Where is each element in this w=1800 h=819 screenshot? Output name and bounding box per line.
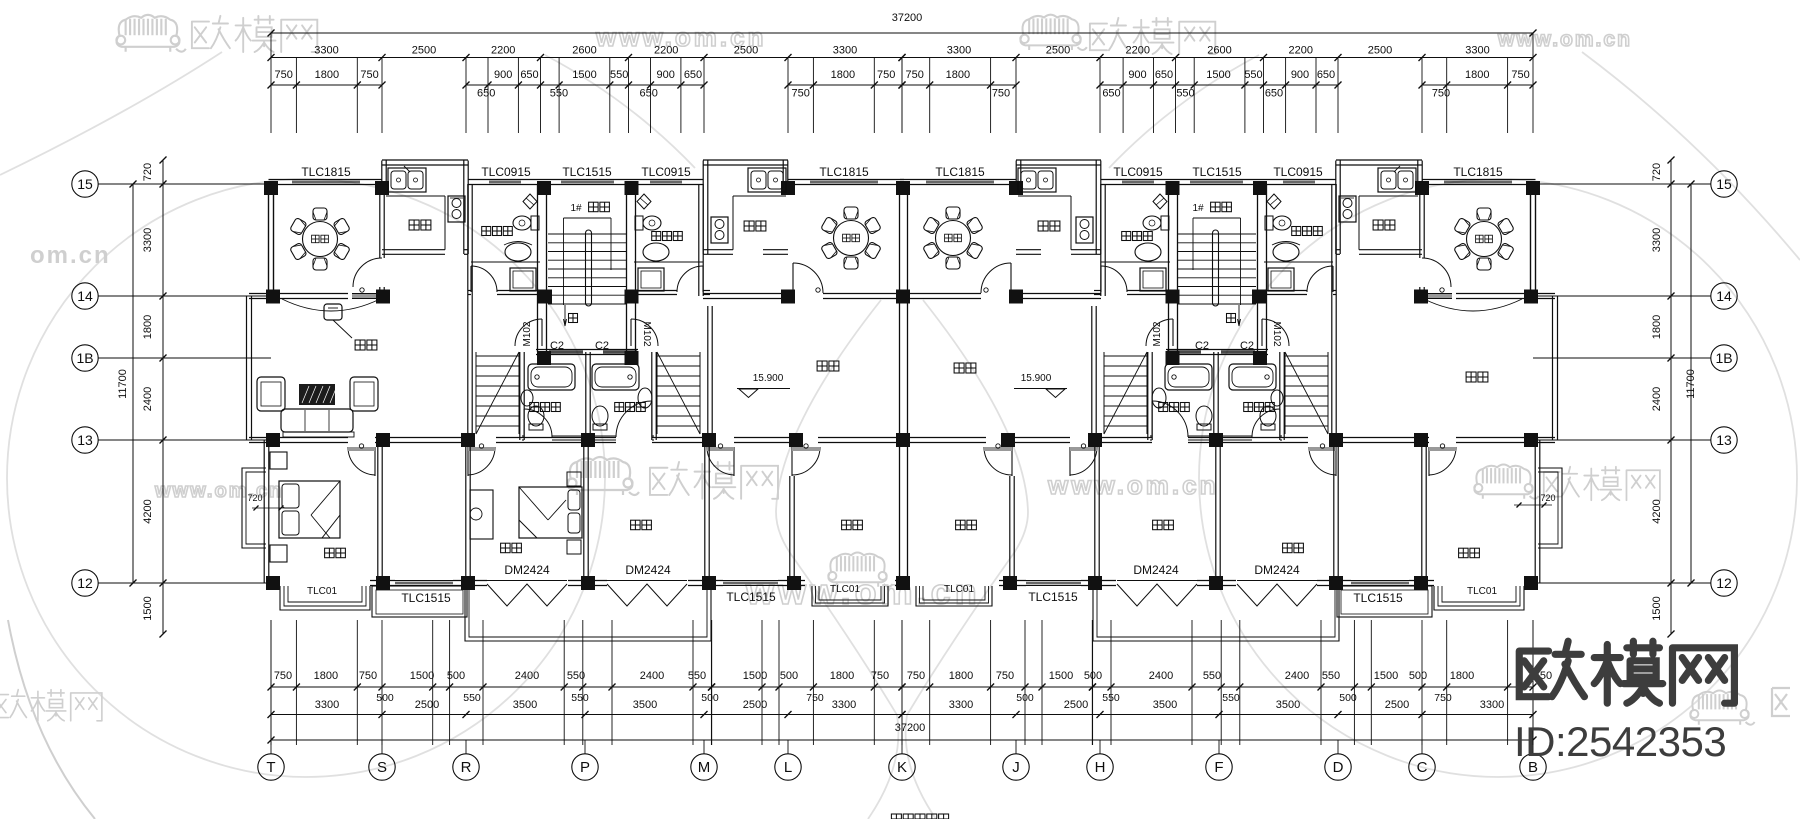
svg-text:650: 650 <box>1265 88 1283 100</box>
svg-text:550: 550 <box>1203 670 1221 682</box>
svg-text:650: 650 <box>1317 69 1335 81</box>
svg-text:2600: 2600 <box>1207 45 1231 57</box>
svg-text:720: 720 <box>247 493 262 503</box>
svg-text:TLC0915: TLC0915 <box>481 165 531 179</box>
svg-text:TLC1815: TLC1815 <box>935 165 985 179</box>
svg-text:14: 14 <box>77 288 93 304</box>
svg-text:11700: 11700 <box>1685 369 1697 399</box>
svg-text:1#: 1# <box>570 203 582 214</box>
svg-text:3500: 3500 <box>1276 699 1300 711</box>
svg-text:37200: 37200 <box>895 722 926 734</box>
svg-text:550: 550 <box>1244 69 1262 81</box>
svg-text:TLC01: TLC01 <box>1467 586 1497 597</box>
svg-text:TLC1515: TLC1515 <box>1028 590 1078 604</box>
svg-text:TLC1515: TLC1515 <box>1353 591 1403 605</box>
svg-text:1500: 1500 <box>142 596 154 620</box>
svg-text:750: 750 <box>877 69 895 81</box>
svg-text:4200: 4200 <box>1651 499 1663 523</box>
svg-text:C2: C2 <box>550 340 564 352</box>
svg-text:TLC1515: TLC1515 <box>1192 165 1242 179</box>
svg-text:500: 500 <box>780 670 798 682</box>
svg-text:3500: 3500 <box>633 699 657 711</box>
svg-text:15.900: 15.900 <box>1021 373 1052 384</box>
svg-text:3300: 3300 <box>949 699 973 711</box>
svg-text:TLC1815: TLC1815 <box>819 165 869 179</box>
svg-text:F: F <box>1214 759 1223 776</box>
svg-text:2400: 2400 <box>142 387 154 411</box>
svg-text:750: 750 <box>907 670 925 682</box>
svg-text:TLC01: TLC01 <box>307 586 337 597</box>
svg-text:3300: 3300 <box>315 699 339 711</box>
svg-text:ID:2542353: ID:2542353 <box>1514 718 1726 765</box>
svg-text:900: 900 <box>1291 69 1309 81</box>
svg-text:1800: 1800 <box>314 670 338 682</box>
svg-text:500: 500 <box>376 692 394 704</box>
svg-text:900: 900 <box>1128 69 1146 81</box>
svg-text:37200: 37200 <box>892 12 923 24</box>
svg-text:750: 750 <box>359 670 377 682</box>
svg-text:750: 750 <box>1432 88 1450 100</box>
svg-text:1800: 1800 <box>949 670 973 682</box>
svg-text:1800: 1800 <box>1465 69 1489 81</box>
svg-text:om.cn: om.cn <box>30 242 111 269</box>
svg-text:TLC1515: TLC1515 <box>726 590 776 604</box>
svg-text:750: 750 <box>871 670 889 682</box>
svg-text:1500: 1500 <box>1651 596 1663 620</box>
svg-text:14: 14 <box>1716 288 1732 304</box>
svg-text:3300: 3300 <box>947 45 971 57</box>
svg-text:2600: 2600 <box>572 45 596 57</box>
svg-text:www.om.cn: www.om.cn <box>1497 28 1632 51</box>
svg-text:1800: 1800 <box>315 69 339 81</box>
svg-text:H: H <box>1095 759 1106 776</box>
svg-text:500: 500 <box>701 692 719 704</box>
svg-text:TLC0915: TLC0915 <box>641 165 691 179</box>
svg-text:DM2424: DM2424 <box>1254 563 1300 577</box>
svg-text:TLC1815: TLC1815 <box>301 165 351 179</box>
svg-text:M102: M102 <box>522 321 533 346</box>
svg-text:M102: M102 <box>1152 321 1163 346</box>
svg-text:550: 550 <box>688 670 706 682</box>
svg-text:DM2424: DM2424 <box>504 563 550 577</box>
svg-text:650: 650 <box>1155 69 1173 81</box>
svg-text:1800: 1800 <box>830 670 854 682</box>
svg-text:2200: 2200 <box>491 45 515 57</box>
svg-text:3300: 3300 <box>1465 45 1489 57</box>
svg-text:M102: M102 <box>641 321 652 346</box>
svg-text:2500: 2500 <box>412 45 436 57</box>
svg-text:2400: 2400 <box>515 670 539 682</box>
svg-text:2500: 2500 <box>1385 699 1409 711</box>
svg-text:1B: 1B <box>76 350 93 366</box>
svg-text:11700: 11700 <box>117 369 129 399</box>
svg-text:DM2424: DM2424 <box>625 563 671 577</box>
svg-text:2400: 2400 <box>640 670 664 682</box>
svg-text:750: 750 <box>992 88 1010 100</box>
svg-text:3300: 3300 <box>832 699 856 711</box>
svg-text:C2: C2 <box>1195 340 1209 352</box>
svg-text:13: 13 <box>77 432 93 448</box>
svg-text:3300: 3300 <box>142 228 154 252</box>
svg-text:3300: 3300 <box>833 45 857 57</box>
svg-text:TLC01: TLC01 <box>944 584 974 595</box>
svg-text:750: 750 <box>1434 692 1452 704</box>
svg-text:2500: 2500 <box>1368 45 1392 57</box>
svg-text:15: 15 <box>1716 176 1732 192</box>
svg-text:TLC1815: TLC1815 <box>1453 165 1503 179</box>
svg-text:J: J <box>1012 759 1020 776</box>
svg-text:T: T <box>266 759 275 776</box>
svg-text:2200: 2200 <box>1126 45 1150 57</box>
svg-text:720: 720 <box>1651 163 1663 181</box>
svg-text:500: 500 <box>1409 670 1427 682</box>
svg-text:3500: 3500 <box>513 699 537 711</box>
svg-text:1500: 1500 <box>743 670 767 682</box>
svg-text:2400: 2400 <box>1285 670 1309 682</box>
svg-text:550: 550 <box>1176 88 1194 100</box>
svg-text:DM2424: DM2424 <box>1133 563 1179 577</box>
svg-text:2500: 2500 <box>415 699 439 711</box>
svg-text:15: 15 <box>77 176 93 192</box>
svg-text:750: 750 <box>906 69 924 81</box>
svg-text:550: 550 <box>463 692 481 704</box>
svg-text:750: 750 <box>1511 69 1529 81</box>
svg-text:3500: 3500 <box>1153 699 1177 711</box>
svg-text:550: 550 <box>1222 692 1240 704</box>
svg-text:TLC0915: TLC0915 <box>1113 165 1163 179</box>
svg-text:1500: 1500 <box>1049 670 1073 682</box>
svg-text:TLC01: TLC01 <box>830 584 860 595</box>
svg-text:1#: 1# <box>1192 203 1204 214</box>
svg-text:TLC1515: TLC1515 <box>562 165 612 179</box>
svg-text:720: 720 <box>1540 493 1555 503</box>
svg-text:C2: C2 <box>1240 340 1254 352</box>
svg-text:750: 750 <box>792 88 810 100</box>
svg-text:650: 650 <box>477 88 495 100</box>
svg-text:M: M <box>698 759 711 776</box>
svg-text:2400: 2400 <box>1651 387 1663 411</box>
svg-text:1800: 1800 <box>1450 670 1474 682</box>
svg-text:C2: C2 <box>595 340 609 352</box>
svg-text:1800: 1800 <box>142 315 154 339</box>
svg-text:550: 550 <box>1322 670 1340 682</box>
svg-text:2500: 2500 <box>1064 699 1088 711</box>
svg-text:1800: 1800 <box>1651 315 1663 339</box>
svg-text:1500: 1500 <box>572 69 596 81</box>
svg-text:2200: 2200 <box>654 45 678 57</box>
svg-text:2200: 2200 <box>1289 45 1313 57</box>
svg-text:650: 650 <box>520 69 538 81</box>
svg-text:2400: 2400 <box>1149 670 1173 682</box>
svg-text:S: S <box>377 759 387 776</box>
svg-text:1500: 1500 <box>1206 69 1230 81</box>
svg-text:750: 750 <box>996 670 1014 682</box>
svg-text:2500: 2500 <box>743 699 767 711</box>
svg-text:720: 720 <box>142 163 154 181</box>
svg-text:L: L <box>784 759 792 776</box>
svg-text:12: 12 <box>77 575 93 591</box>
svg-text:3300: 3300 <box>1480 699 1504 711</box>
svg-text:C: C <box>1417 759 1428 776</box>
svg-text:1500: 1500 <box>1374 670 1398 682</box>
svg-text:2500: 2500 <box>734 45 758 57</box>
svg-text:TLC1515: TLC1515 <box>401 591 451 605</box>
svg-text:2500: 2500 <box>1046 45 1070 57</box>
svg-text:TLC0915: TLC0915 <box>1273 165 1323 179</box>
svg-text:750: 750 <box>806 692 824 704</box>
svg-text:650: 650 <box>684 69 702 81</box>
svg-text:15.900: 15.900 <box>753 373 784 384</box>
svg-text:1800: 1800 <box>946 69 970 81</box>
svg-text:900: 900 <box>494 69 512 81</box>
svg-text:3300: 3300 <box>314 45 338 57</box>
svg-text:M102: M102 <box>1271 321 1282 346</box>
svg-text:550: 550 <box>571 692 589 704</box>
svg-text:R: R <box>461 759 472 776</box>
svg-text:1B: 1B <box>1715 350 1732 366</box>
svg-text:750: 750 <box>274 670 292 682</box>
svg-text:900: 900 <box>657 69 675 81</box>
svg-text:4200: 4200 <box>142 499 154 523</box>
svg-text:K: K <box>897 759 907 776</box>
svg-text:1500: 1500 <box>410 670 434 682</box>
svg-text:1800: 1800 <box>831 69 855 81</box>
svg-text:3300: 3300 <box>1651 228 1663 252</box>
svg-text:D: D <box>1333 759 1344 776</box>
svg-text:650: 650 <box>640 88 658 100</box>
svg-text:12: 12 <box>1716 575 1732 591</box>
svg-text:550: 550 <box>610 69 628 81</box>
svg-text:13: 13 <box>1716 432 1732 448</box>
svg-text:750: 750 <box>360 69 378 81</box>
svg-text:750: 750 <box>275 69 293 81</box>
svg-text:650: 650 <box>1102 88 1120 100</box>
svg-text:P: P <box>580 759 590 776</box>
